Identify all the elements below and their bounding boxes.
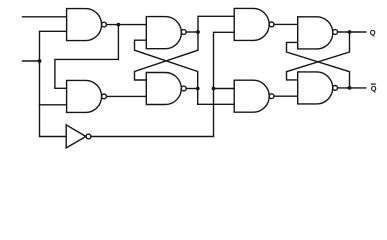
wire G5 output to G7 input 2: [274, 95, 298, 97]
nand gate GM: [146, 73, 181, 105]
svg-text:Q: Q: [371, 84, 377, 93]
node J3 junction: [196, 87, 200, 91]
nand gate G7: [298, 72, 333, 104]
wire C input: [23, 60, 40, 62]
node JQ junction: [348, 30, 352, 34]
wire cross feedback G2.out to GM input 1: [135, 32, 199, 80]
nand gate G3: [67, 80, 102, 112]
wire clockbar to G5 input 1: [214, 88, 235, 90]
nand gate G2: [146, 17, 181, 49]
wire C to G1 input 2: [40, 31, 67, 61]
wire G2 output up to G4 input 1: [198, 16, 234, 32]
wire G3 output to GM input 2: [106, 95, 146, 97]
inverter U1: [66, 125, 86, 148]
wire cross feedback Q to G7 input 1: [287, 32, 350, 80]
wire G1 output down to G3 input 1: [55, 25, 119, 89]
wire D input: [23, 16, 67, 18]
svg-text:Q: Q: [370, 28, 376, 37]
wire GM output: [186, 88, 198, 90]
nand gate G6: [298, 17, 333, 49]
wire inverter output riser to G4 input 2: [91, 32, 234, 136]
wire cross feedback GM.out to G2 input 2: [135, 40, 198, 88]
wire cross feedback Qbar to G6 input 2: [287, 42, 350, 88]
node J-G1 junction: [117, 23, 121, 27]
wire Qbar output: [338, 87, 366, 89]
wire C branch to G3 input 2: [40, 104, 67, 106]
node J4 junction: [212, 87, 216, 91]
wire GM output down to G5 input 2: [198, 89, 235, 105]
nand gate G5: [234, 80, 269, 112]
wire G4 output to G6 input 1: [274, 23, 298, 25]
node J1 junction: [38, 59, 42, 63]
nand gate G1: [67, 9, 102, 41]
wire G2 output: [186, 31, 198, 33]
wire Q output: [338, 31, 366, 33]
wire C down to inverter: [40, 61, 67, 137]
nand gate G4: [234, 8, 269, 40]
node J2 junction: [196, 30, 200, 34]
wire G1 output to G2 input 1: [106, 24, 146, 26]
node JQb junction: [348, 86, 352, 90]
